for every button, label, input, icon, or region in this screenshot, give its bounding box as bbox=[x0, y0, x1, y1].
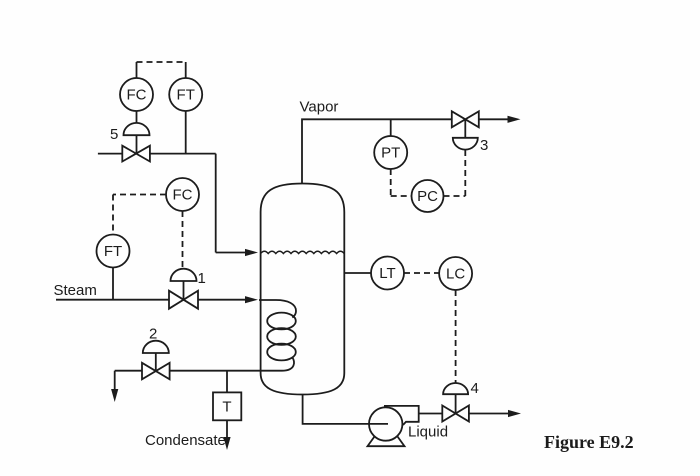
wire: top pipe y=153.6 through valve 5 bbox=[98, 153, 216, 155]
svg-text:Vapor: Vapor bbox=[300, 99, 339, 116]
steam trap T box bbox=[213, 392, 241, 420]
wire: liquid line arrow bbox=[469, 410, 521, 417]
instrument FC1 bbox=[120, 78, 153, 111]
svg-text:Liquid: Liquid bbox=[408, 424, 448, 441]
valve 1 actuator dome bbox=[171, 269, 197, 281]
wire: dashed LC down to valve 4 actuator bbox=[455, 290, 457, 383]
svg-text:PT: PT bbox=[381, 145, 400, 162]
valve 5 actuator dome bbox=[124, 123, 150, 135]
svg-text:FT: FT bbox=[177, 87, 195, 104]
wire: vertical drop x=215.7 to feed line bbox=[215, 154, 217, 253]
wire: vessel to LT bbox=[344, 272, 371, 274]
wire: valve 1 stem bbox=[183, 281, 185, 300]
wire: valve 4 stem bbox=[455, 394, 457, 413]
wire: FT2 stem to steam line bbox=[112, 268, 114, 300]
liquid level wavy line bbox=[261, 251, 345, 253]
instrument FT1 bbox=[169, 78, 202, 111]
wire: trap outlet with arrow down bbox=[223, 420, 230, 450]
svg-text:LC: LC bbox=[446, 266, 465, 283]
instrument PC bbox=[412, 180, 444, 212]
instrument LT bbox=[371, 257, 404, 290]
valve 4 body bbox=[442, 406, 469, 422]
valve 2 body bbox=[142, 363, 170, 380]
wire: pump outlet to valve 4 bbox=[419, 413, 442, 415]
svg-text:FC: FC bbox=[127, 87, 147, 104]
svg-text:Figure E9.2: Figure E9.2 bbox=[544, 432, 634, 452]
wire: valve 3 stem down bbox=[464, 119, 466, 137]
svg-text:Condensate: Condensate bbox=[145, 432, 226, 449]
wire: dashed FC2 down to valve 1 actuator bbox=[182, 211, 184, 267]
svg-text:3: 3 bbox=[480, 137, 488, 154]
instrument FT2 bbox=[97, 235, 130, 268]
wire: feed line into vessel with arrow bbox=[216, 249, 258, 256]
heating coil bbox=[259, 300, 296, 371]
valve 3 body bbox=[452, 111, 479, 127]
wire: vessel bottom to pump inlet bbox=[303, 395, 388, 424]
wire: steam line with arrow into vessel bbox=[56, 296, 258, 303]
instrument LC bbox=[439, 257, 472, 290]
wire: valve 2 stem bbox=[155, 353, 157, 371]
valve 1 body bbox=[169, 291, 198, 309]
valve 4 actuator dome bbox=[443, 383, 468, 394]
pump body bbox=[368, 406, 419, 446]
instrument PT bbox=[374, 136, 407, 169]
instrument FC2 bbox=[166, 178, 199, 211]
wire: dashed PC to valve 3 actuator bbox=[444, 150, 466, 196]
wire: dashed LT to LC bbox=[404, 272, 440, 274]
wire: dashed signal FC2 to FT2 bbox=[113, 195, 166, 235]
svg-text:LT: LT bbox=[379, 265, 395, 282]
wire: dashed signal FC1 to FT1 over top bbox=[137, 62, 186, 78]
svg-text:T: T bbox=[222, 399, 231, 416]
wire: valve 5 stem bbox=[136, 135, 138, 153]
valve 2 actuator dome bbox=[143, 341, 169, 353]
svg-text:PC: PC bbox=[417, 188, 438, 205]
valve 5 body bbox=[122, 146, 150, 162]
wire: PT stem from vapor line bbox=[390, 119, 392, 136]
svg-text:4: 4 bbox=[471, 380, 479, 397]
wire: FC1 stem down to valve 5 actuator bbox=[136, 111, 138, 123]
wire: stem from condensate line to trap T bbox=[226, 371, 228, 393]
svg-text:5: 5 bbox=[110, 126, 118, 143]
wire: left drain drop with arrow bbox=[111, 371, 118, 402]
wire: FT1 stem down to top pipe bbox=[185, 111, 187, 153]
wire: dashed PT to PC bbox=[391, 169, 412, 196]
svg-text:Steam: Steam bbox=[54, 282, 97, 299]
svg-text:1: 1 bbox=[198, 270, 206, 287]
valve 3 actuator dome below bbox=[453, 138, 478, 150]
svg-text:FT: FT bbox=[104, 243, 122, 260]
vessel evaporator body bbox=[261, 184, 345, 395]
wire: vapor line from vessel top bbox=[302, 119, 452, 183]
svg-text:FC: FC bbox=[173, 187, 193, 204]
wire: vapor arrow after valve 3 bbox=[479, 116, 521, 123]
wire: condensate line from coil through valve 2 bbox=[115, 370, 261, 372]
